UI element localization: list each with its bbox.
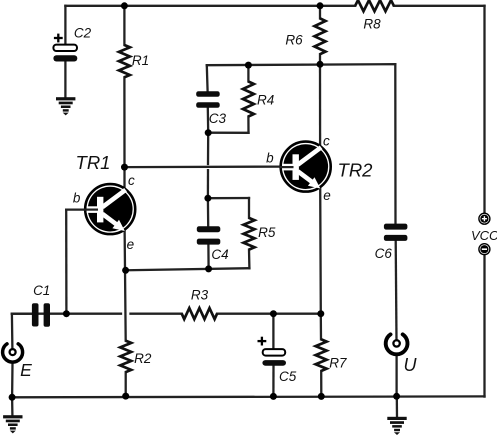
svg-text:e: e xyxy=(127,237,135,252)
svg-text:E: E xyxy=(20,360,32,380)
svg-text:e: e xyxy=(323,188,331,203)
svg-text:C6: C6 xyxy=(375,246,393,261)
svg-text:R7: R7 xyxy=(329,356,347,371)
svg-text:VCC: VCC xyxy=(471,228,497,243)
svg-text:R8: R8 xyxy=(363,17,381,32)
svg-text:TR1: TR1 xyxy=(76,152,111,173)
svg-text:C4: C4 xyxy=(211,247,228,262)
svg-text:R3: R3 xyxy=(191,288,209,303)
svg-text:C2: C2 xyxy=(74,26,92,41)
svg-text:R6: R6 xyxy=(285,33,303,48)
svg-text:C1: C1 xyxy=(33,283,50,298)
svg-text:R4: R4 xyxy=(257,93,274,108)
svg-text:U: U xyxy=(404,355,418,375)
svg-text:TR2: TR2 xyxy=(338,160,374,181)
svg-text:R2: R2 xyxy=(134,351,152,366)
svg-text:R5: R5 xyxy=(258,225,276,240)
svg-text:b: b xyxy=(73,190,81,205)
svg-text:C5: C5 xyxy=(279,369,297,384)
svg-text:b: b xyxy=(266,150,274,165)
svg-text:R1: R1 xyxy=(132,53,149,68)
svg-text:c: c xyxy=(128,173,135,188)
svg-text:C3: C3 xyxy=(209,111,227,126)
svg-text:c: c xyxy=(323,133,330,148)
